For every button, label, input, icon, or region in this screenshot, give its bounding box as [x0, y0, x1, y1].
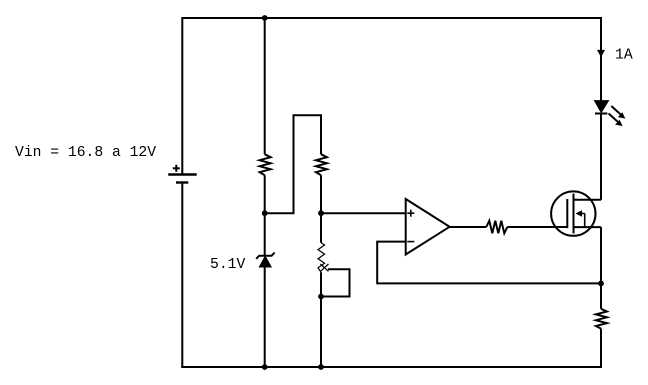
wire LED to drain [600, 114, 602, 200]
wire R2 bottom lead [320, 175, 322, 213]
node B (divider node) [318, 210, 324, 216]
node pot to ground rail [318, 364, 324, 370]
wire top rail [182, 17, 601, 19]
resistor R1 [260, 154, 271, 175]
resistor R4 (sense) [596, 309, 607, 329]
current arrow 1A [597, 50, 605, 57]
wire zener top lead [264, 213, 266, 255]
wire pot bottom lead [320, 272, 322, 367]
op-amp U1 [406, 199, 450, 255]
wire node A jog up to R2 [265, 115, 321, 213]
wire op-amp output [450, 226, 487, 228]
node junction top of R1 [262, 15, 268, 21]
node A (reference node) [262, 210, 268, 216]
wire R1 bottom lead [264, 175, 266, 213]
wire op-amp inverting input to feedback [377, 242, 601, 284]
node wiper tie [318, 294, 324, 300]
node zener to ground rail [262, 364, 268, 370]
resistor R2 [316, 154, 327, 175]
wire R1 top lead [264, 18, 266, 154]
svg-text:Vin = 16.8 a 12V: Vin = 16.8 a 12V [15, 145, 156, 161]
wire node B to op-amp + input [321, 212, 406, 214]
zener diode D1 5.1V [256, 253, 274, 267]
wire gate lead [507, 226, 567, 228]
wire pot wiper tap loop [321, 269, 350, 296]
resistor R3 (gate) [486, 221, 507, 234]
node feedback sense [598, 281, 604, 287]
svg-text:1A: 1A [615, 48, 633, 64]
battery V1 [168, 165, 197, 183]
wire pot top lead [320, 213, 322, 242]
wire battery bottom lead [181, 183, 183, 369]
wire zener bottom lead [264, 267, 266, 367]
MOSFET Q1 [551, 191, 601, 235]
svg-text:5.1V: 5.1V [210, 257, 245, 273]
wire LED branch top [600, 17, 602, 101]
LED D2 [595, 101, 626, 127]
wire battery top lead [181, 17, 183, 175]
potentiometer P1 (rheostat) [318, 243, 329, 273]
wire sense resistor to ground rail [600, 329, 602, 368]
wire source down to sense node [600, 227, 602, 309]
wire bottom rail [181, 366, 601, 368]
